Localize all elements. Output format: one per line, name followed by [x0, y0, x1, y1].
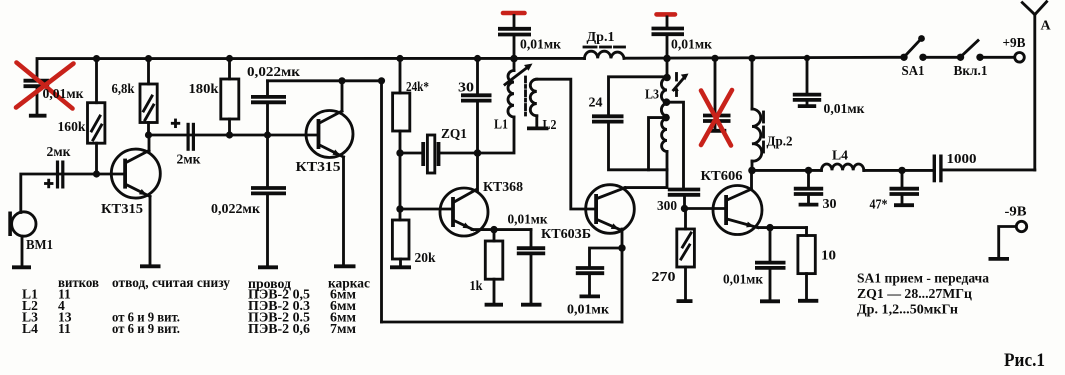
wire KT606 emitter — [758, 226, 807, 229]
switch SA1 — [900, 35, 926, 61]
terminal -9V — [989, 221, 1027, 259]
svg-text:24k*: 24k* — [406, 80, 429, 95]
resistor 6.8k — [140, 59, 157, 135]
wire antenna lead — [1033, 14, 1036, 170]
wire collector KT315#2 — [341, 81, 344, 111]
transistor KT603B — [586, 185, 635, 234]
svg-text:L1: L1 — [494, 118, 508, 133]
svg-text:270: 270 — [652, 270, 676, 285]
wire emitter KT603B down — [621, 229, 624, 322]
svg-text:0,01мк: 0,01мк — [671, 38, 713, 53]
wire collector KT606 up — [750, 170, 753, 189]
wire emitter KT315#1 to ground — [149, 197, 152, 265]
svg-text:BM1: BM1 — [26, 238, 53, 253]
wire emitter KT315#2 to ground — [342, 157, 345, 265]
transistor KT606 — [713, 186, 762, 235]
node collector KT315#2 — [338, 77, 345, 84]
resistor 10 — [798, 228, 818, 301]
svg-text:300: 300 — [657, 199, 677, 214]
svg-text:2мк: 2мк — [177, 153, 202, 168]
resistor 20k — [390, 220, 411, 267]
svg-text:1k: 1k — [470, 279, 483, 294]
svg-text:ZQ1: ZQ1 — [441, 127, 467, 142]
capacitor 0.01mk at rail x=807 — [793, 58, 821, 106]
terminal +9V — [1015, 53, 1025, 63]
quartz ZQ1 — [400, 135, 478, 173]
antenna A — [1022, 2, 1046, 15]
svg-text:30: 30 — [823, 197, 837, 212]
svg-text:SA1 прием - передача: SA1 прием - передача — [857, 272, 989, 287]
svg-text:Др. 1,2...50мкГн: Др. 1,2...50мкГн — [857, 303, 958, 318]
red X cross over capacitor x=715 — [701, 90, 732, 146]
node bias junctions — [93, 131, 271, 177]
microphone BM1 — [8, 212, 36, 268]
resistor 24k* — [393, 59, 410, 221]
svg-text:ПЭВ-2 0,6: ПЭВ-2 0,6 — [248, 321, 310, 336]
svg-text:L2: L2 — [543, 118, 557, 133]
capacitor electrolytic 2mk (interstage) — [172, 120, 195, 151]
wire base KT606 — [685, 207, 725, 210]
svg-text:0,01мк: 0,01мк — [824, 102, 866, 117]
capacitor 0.01mk top-left (crossed out) — [24, 79, 50, 116]
node KT368 collector tank — [474, 149, 482, 157]
transistor KT368 — [400, 188, 488, 236]
svg-text:10: 10 — [821, 249, 836, 264]
svg-text:1000: 1000 — [947, 152, 977, 167]
capacitor 0.022mk upper — [251, 81, 286, 135]
svg-text:0,022мк: 0,022мк — [247, 65, 301, 80]
wire L2 top to KT603B base — [537, 79, 596, 209]
capacitor 0.022mk lower — [251, 135, 286, 267]
svg-text:6,8k: 6,8k — [112, 82, 135, 97]
svg-text:7мм: 7мм — [330, 321, 356, 336]
svg-text:0,01мк: 0,01мк — [520, 38, 562, 53]
svg-text:КТ315: КТ315 — [101, 202, 143, 217]
svg-text:47*: 47* — [870, 198, 888, 213]
wire bias line y=135 — [149, 134, 319, 137]
svg-text:КТ606: КТ606 — [701, 169, 743, 184]
wire top feedback line y=80.5 — [268, 79, 382, 82]
capacitor 47* (L4 filter) — [890, 170, 920, 205]
wire feedback bottom y=322 — [382, 321, 623, 324]
wire collector KT315#1 — [148, 135, 151, 151]
capacitor 300 — [668, 190, 700, 209]
wire L4 to capacitor 1000 — [864, 169, 933, 172]
svg-text:30: 30 — [458, 81, 474, 96]
node capacitor 30 tap — [805, 167, 812, 174]
red X cross over top-left capacitor — [16, 63, 74, 109]
svg-text:от 6 и 9 вит.: от 6 и 9 вит. — [112, 321, 180, 336]
resistor 160k — [88, 59, 105, 174]
wire SA1 to Vkl.1 — [923, 56, 961, 59]
svg-text:0,01мк: 0,01мк — [567, 303, 610, 318]
wire L3 bottom to KT603B collector — [625, 170, 667, 188]
ground KT315#1 emitter — [140, 264, 161, 268]
wire Vkl.1 to +9V terminal — [980, 56, 1015, 59]
node base KT368 — [396, 205, 403, 212]
svg-text:20k: 20k — [415, 251, 436, 266]
capacitor 30 (KT368 collector) — [461, 59, 492, 191]
inductor L4 — [821, 164, 863, 170]
svg-text:Др.1: Др.1 — [587, 30, 615, 45]
inductor L3 tapped variable — [661, 58, 688, 169]
inductor L2 — [527, 79, 549, 128]
node capacitor 47 tap — [898, 167, 905, 174]
capacitor 1000 (antenna coupling) — [933, 155, 1035, 183]
wire L3 tap1 to capacitor 300 — [667, 102, 684, 188]
svg-text:0,01мк: 0,01мк — [723, 273, 764, 288]
node KT606 collector / Dr.2 — [748, 167, 756, 175]
svg-text:L4: L4 — [832, 149, 848, 164]
node KT606 emitter — [766, 224, 773, 231]
svg-text:0,01мк: 0,01мк — [508, 213, 549, 228]
wire +9V rail left part — [37, 58, 585, 79]
capacitor 0.01mk crossed out (x=715) — [703, 58, 731, 131]
switch Vkl.1 — [957, 41, 984, 62]
wire emitter KT368 — [472, 228, 531, 231]
capacitor 0.01mk (KT603B emitter bypass) — [576, 248, 622, 296]
svg-text:11: 11 — [58, 321, 71, 336]
svg-text:SA1: SA1 — [902, 64, 925, 79]
svg-text:0,01мк: 0,01мк — [43, 87, 85, 102]
svg-text:2мк: 2мк — [47, 145, 72, 160]
svg-text:ZQ1 — 28...27МГц: ZQ1 — 28...27МГц — [857, 287, 972, 302]
wire mic to base KT315 — [21, 174, 125, 213]
capacitor 24 — [592, 77, 667, 170]
capacitor 0.01mk (KT606 emitter bypass) — [755, 228, 786, 302]
node base KT606 — [681, 205, 688, 212]
svg-text:A: A — [1041, 19, 1052, 34]
capacitor 0.01mk (KT368 emitter) — [517, 230, 545, 305]
node feedback corner — [378, 77, 385, 84]
node emitter KT603B — [618, 244, 625, 251]
svg-text:-9В: -9В — [1005, 205, 1027, 220]
capacitor 0.01mk with red top (x=667) — [652, 14, 685, 58]
transistor KT315 #2 — [306, 111, 353, 158]
svg-text:160k: 160k — [58, 120, 86, 135]
wire output line y=170.4 — [752, 169, 821, 172]
table coil winding data — [22, 275, 370, 336]
node rail junctions — [93, 55, 810, 63]
capacitor 0.01mk with red top (x=514) — [498, 13, 531, 59]
svg-text:Вкл.1: Вкл.1 — [954, 64, 988, 79]
choke Dr.2 — [752, 58, 764, 170]
wire feedback vertical x=381.5 — [380, 81, 383, 322]
capacitor 30 (L4 filter) — [794, 170, 823, 204]
transistor KT315 #1 — [111, 149, 160, 198]
svg-text:L4: L4 — [22, 321, 38, 336]
node divider ZQ1 tap — [396, 149, 403, 156]
svg-text:КТ603Б: КТ603Б — [541, 227, 591, 242]
svg-text:+9В: +9В — [1003, 36, 1026, 51]
svg-text:24: 24 — [589, 96, 603, 111]
wire L3 tap2 to collector loop — [649, 118, 667, 170]
resistor 270 — [677, 209, 695, 302]
resistor 180k — [221, 59, 239, 136]
svg-text:180k: 180k — [189, 82, 219, 97]
wire +9V rail right part — [624, 56, 904, 60]
svg-text:отвод, считая снизу: отвод, считая снизу — [112, 275, 230, 290]
svg-text:Др.2: Др.2 — [767, 135, 793, 150]
svg-text:КТ315: КТ315 — [296, 160, 341, 175]
capacitor electrolytic 2mk (mic coupling) — [46, 161, 65, 189]
svg-text:КТ368: КТ368 — [483, 180, 523, 195]
svg-text:L3: L3 — [645, 88, 659, 103]
choke Dr.1 in rail — [584, 47, 625, 58]
svg-text:Рис.1: Рис.1 — [1004, 351, 1045, 370]
resistor 1k — [485, 230, 503, 305]
svg-text:0,022мк: 0,022мк — [211, 202, 261, 217]
inductor L1 variable — [478, 59, 533, 153]
ground KT315#2 emitter — [334, 264, 356, 268]
node emitter KT368 — [490, 226, 497, 233]
